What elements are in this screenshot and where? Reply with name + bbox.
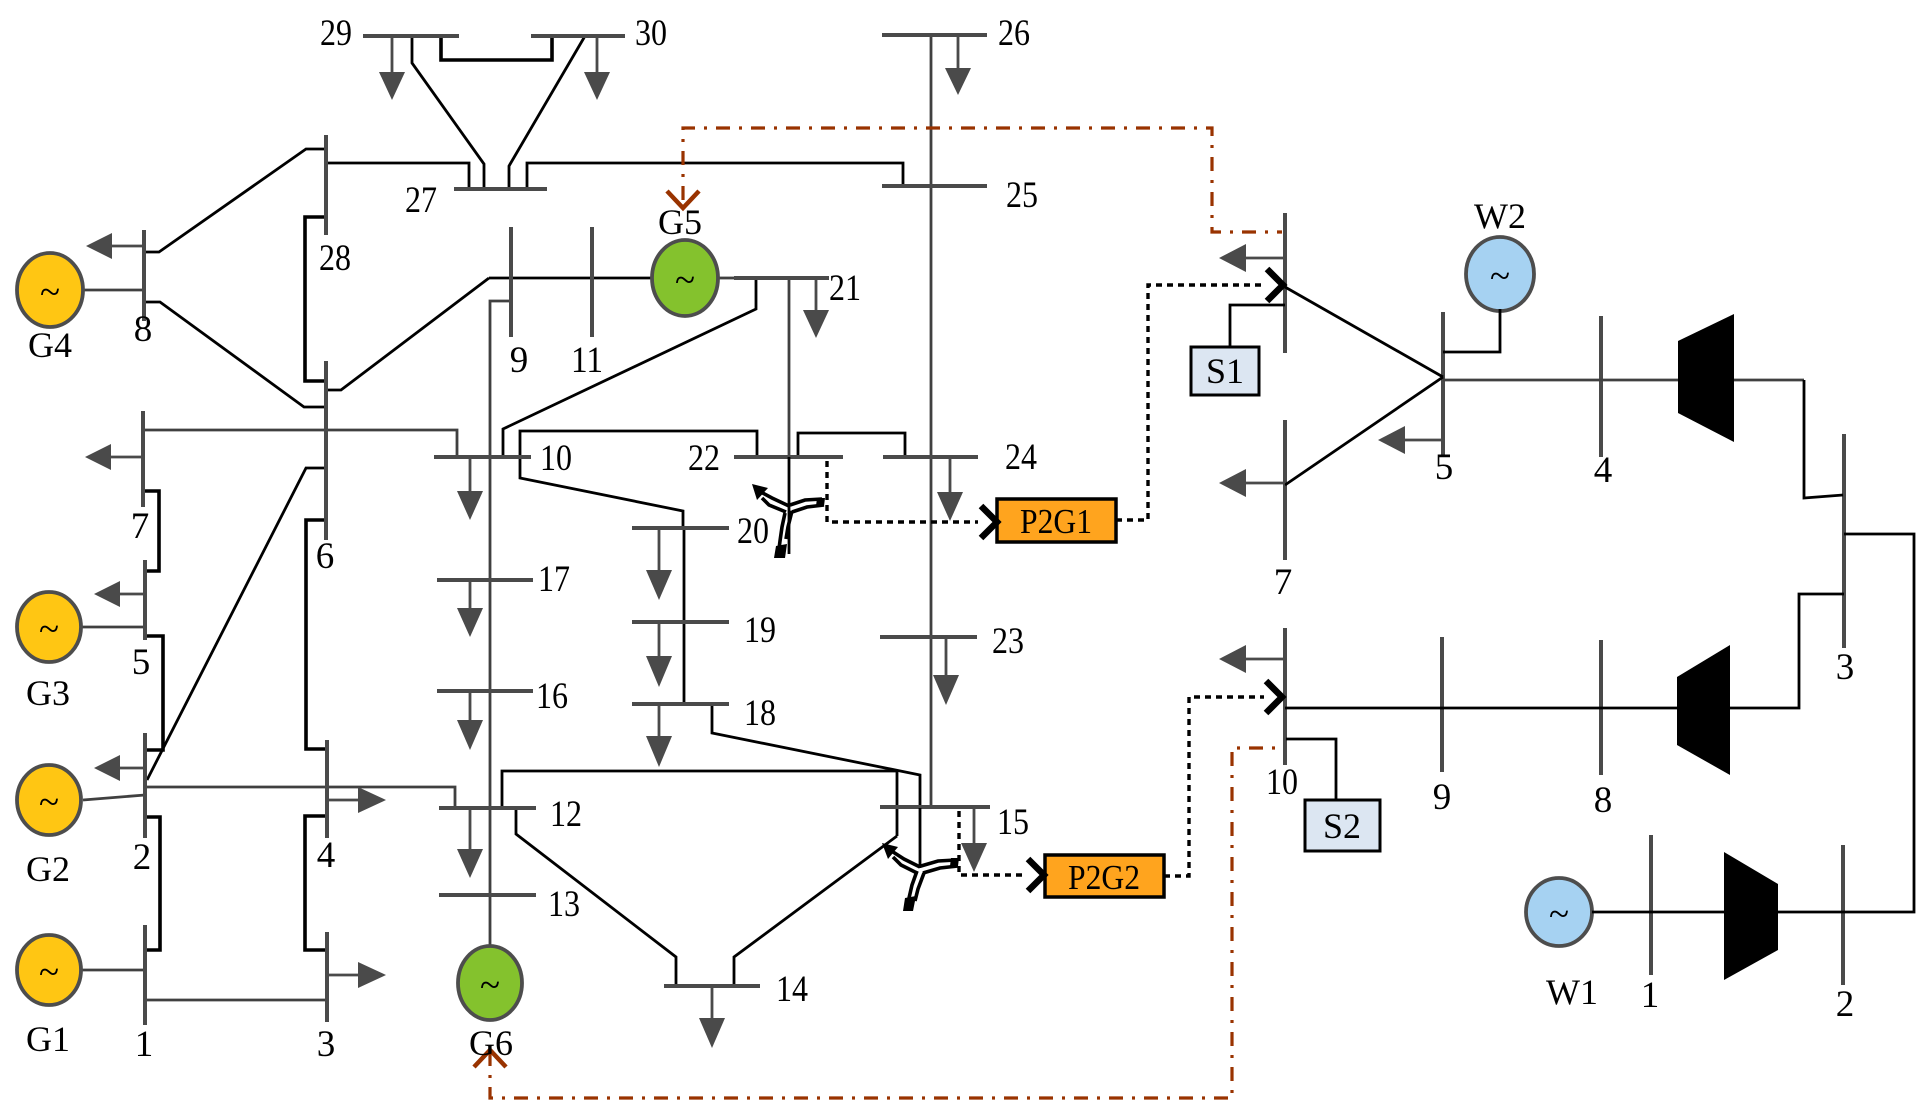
svg-text:~: ~ [40, 272, 60, 313]
svg-text:1: 1 [1641, 975, 1660, 1016]
svg-text:8: 8 [1594, 780, 1613, 821]
svg-text:S2: S2 [1323, 806, 1361, 846]
svg-text:10: 10 [1266, 762, 1298, 803]
svg-text:G5: G5 [658, 202, 702, 242]
svg-text:G6: G6 [469, 1023, 513, 1063]
svg-text:18: 18 [744, 693, 776, 734]
svg-text:21: 21 [829, 268, 861, 309]
svg-text:5: 5 [132, 642, 151, 683]
svg-text:2: 2 [133, 837, 152, 878]
svg-text:6: 6 [316, 536, 335, 577]
svg-text:12: 12 [550, 794, 582, 835]
svg-text:~: ~ [1549, 894, 1569, 935]
svg-text:~: ~ [1490, 256, 1510, 297]
svg-text:16: 16 [536, 676, 568, 717]
svg-text:7: 7 [131, 506, 150, 547]
svg-text:2: 2 [1836, 984, 1855, 1025]
svg-text:27: 27 [405, 180, 437, 221]
svg-text:3: 3 [317, 1024, 336, 1065]
svg-text:G2: G2 [26, 849, 70, 889]
svg-text:29: 29 [320, 13, 352, 54]
svg-text:~: ~ [39, 952, 59, 993]
svg-text:1: 1 [135, 1024, 154, 1065]
svg-text:~: ~ [39, 782, 59, 823]
svg-text:28: 28 [319, 238, 351, 279]
svg-text:5: 5 [1435, 447, 1454, 488]
svg-text:24: 24 [1005, 437, 1037, 478]
svg-text:G4: G4 [28, 325, 72, 365]
svg-text:9: 9 [510, 340, 529, 381]
svg-text:7: 7 [1274, 562, 1293, 603]
svg-text:~: ~ [39, 609, 59, 650]
svg-text:9: 9 [1433, 777, 1452, 818]
svg-text:3: 3 [1836, 647, 1855, 688]
svg-text:10: 10 [540, 438, 572, 479]
svg-text:17: 17 [538, 559, 570, 600]
svg-text:P2G2: P2G2 [1068, 858, 1140, 897]
svg-text:26: 26 [998, 13, 1030, 54]
svg-text:30: 30 [635, 13, 667, 54]
svg-text:4: 4 [1594, 450, 1613, 491]
svg-text:19: 19 [744, 610, 776, 651]
svg-text:11: 11 [571, 340, 603, 381]
svg-text:P2G1: P2G1 [1020, 502, 1092, 541]
svg-text:4: 4 [317, 835, 336, 876]
svg-text:S1: S1 [1206, 351, 1244, 391]
svg-text:22: 22 [688, 438, 720, 479]
svg-text:W2: W2 [1474, 196, 1526, 236]
svg-text:25: 25 [1006, 175, 1038, 216]
svg-text:20: 20 [737, 511, 769, 552]
svg-text:13: 13 [548, 884, 580, 925]
svg-text:~: ~ [675, 260, 695, 301]
svg-text:14: 14 [776, 969, 808, 1010]
svg-text:~: ~ [480, 965, 500, 1006]
svg-text:G1: G1 [26, 1019, 70, 1059]
svg-text:15: 15 [997, 802, 1029, 843]
svg-text:G3: G3 [26, 673, 70, 713]
svg-text:W1: W1 [1546, 972, 1598, 1012]
svg-text:23: 23 [992, 621, 1024, 662]
svg-text:8: 8 [134, 309, 153, 350]
